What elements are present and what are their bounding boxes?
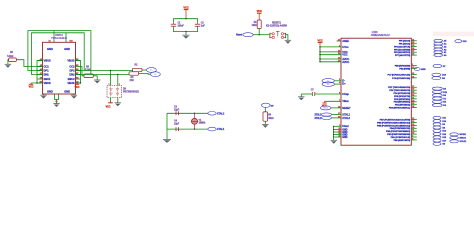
svg-text:PD2 (INT2/RXD1): PD2 (INT2/RXD1)	[394, 102, 411, 104]
svg-text:K2-1187SQ-A4SW: K2-1187SQ-A4SW	[266, 25, 287, 28]
net port D10	[433, 120, 441, 123]
net port D17	[433, 139, 441, 142]
U100 right pin 33 PE2 (HWB)	[411, 67, 417, 69]
svg-text:GND: GND	[47, 90, 53, 94]
U100 right pin 30 PB6 (PCINT6/OC1B/OC4B/ADC13)	[411, 122, 417, 124]
svg-text:D+: D+	[342, 81, 346, 85]
USBC1 left pin A8 SBU1	[38, 78, 43, 80]
ground at R6	[5, 63, 11, 65]
net port A0	[434, 54, 443, 57]
svg-text:PB5 (PCINT5/OC1A/OC4B/ADC12): PB5 (PCINT5/OC1A/OC4B/ADC12)	[377, 124, 410, 127]
svg-text:AVCC: AVCC	[342, 60, 349, 64]
svg-text:VBUS: VBUS	[44, 81, 51, 85]
U100 right pin 8 PB0 (SS/PCINT0)	[411, 139, 417, 141]
U100 right pin 41 PF0 (ADC0)	[411, 40, 417, 42]
svg-text:PB4 (PCINT4/ADC11): PB4 (PCINT4/ADC11)	[390, 127, 411, 130]
wire net D+ (DP2 run)	[76, 70, 133, 72]
junction D+ at ESD	[110, 70, 111, 71]
wire R1 to junction	[258, 29, 260, 35]
svg-text:B12: B12	[70, 41, 73, 43]
svg-text:10kΩ: 10kΩ	[252, 25, 258, 27]
U100 right pin 21 PD3 (INT3/TXD1)	[411, 98, 417, 100]
junction D- at ESD	[117, 74, 118, 75]
net port D3	[432, 104, 442, 107]
ground at reset switch	[285, 39, 291, 41]
USBC1 bottom shield pin left to ground	[43, 94, 45, 95]
IC U100 ATMEGA32U4-AU body	[341, 38, 411, 145]
svg-text:USBC1: USBC1	[55, 34, 63, 37]
net port A1	[434, 51, 443, 54]
net port A3	[434, 45, 443, 48]
svg-text:PB0 (SS/PCINT0): PB0 (SS/PCINT0)	[394, 140, 411, 142]
svg-text:DN2: DN2	[69, 73, 75, 77]
svg-text:XTAL2: XTAL2	[342, 116, 350, 120]
svg-text:PD1 (INT1/SDA): PD1 (INT1/SDA)	[395, 104, 410, 107]
net port A5	[434, 39, 443, 42]
USBC1 right pin B8 SBU2	[76, 78, 81, 80]
power flag VCC left of USBC1	[30, 83, 32, 84]
wire R5 to ground	[93, 76, 97, 80]
svg-text:PE6 (INT6/AIN0): PE6 (INT6/AIN0)	[395, 64, 411, 67]
net port D- to U100	[322, 79, 334, 83]
net port D12	[432, 90, 442, 93]
net port A4	[434, 42, 443, 45]
U100 left pin 43 GND	[334, 136, 342, 138]
svg-text:PD7 (T0/OC4D/ADC10): PD7 (T0/OC4D/ADC10)	[388, 86, 410, 89]
svg-text:VBUS: VBUS	[67, 81, 74, 85]
USBC1 left pin A7 DN1	[38, 74, 43, 76]
wire ESD pin2 up to D-	[117, 75, 119, 86]
net port D14	[433, 129, 441, 132]
svg-text:PD6 (T1/OC4D/ADC9): PD6 (T1/OC4D/ADC9)	[389, 89, 410, 92]
svg-text:DN1: DN1	[44, 73, 50, 77]
svg-text:PF1 (ADC1): PF1 (ADC1)	[399, 43, 411, 46]
svg-text:PD5 (XCK1/CTS): PD5 (XCK1/CTS)	[394, 96, 410, 98]
U100 right pin 28 PB4 (PCINT4/ADC11)	[411, 127, 417, 129]
faint highlight band	[433, 32, 474, 37]
junction VBUS right	[80, 82, 81, 83]
net port HWB	[414, 68, 420, 71]
capacitor C3 22pF	[175, 111, 177, 115]
wire VCC branch	[320, 58, 341, 60]
svg-text:PF4 (ADC4/TCK): PF4 (ADC4/TCK)	[394, 45, 410, 48]
junction top of cap loop	[185, 18, 186, 19]
svg-text:Reset: Reset	[323, 107, 328, 110]
U100 right pin 26 PD6 (T1/OC4D/ADC9)	[411, 89, 417, 91]
USBC1 left pin B4 VBUS	[38, 82, 43, 84]
capacitor C4 22pF	[175, 127, 177, 131]
U100 right pin 32 PC7 (ICP3/CLK0/OC4A)	[411, 74, 417, 76]
wire VCC branch	[320, 46, 341, 48]
wire VBUS bottom left	[37, 82, 43, 84]
svg-text:PRTR5V0U2X: PRTR5V0U2X	[123, 91, 139, 94]
U100 right pin 25 PD4 (ICP1/ADC8)	[411, 92, 417, 94]
wire VCC branch	[320, 54, 341, 56]
U100 right pin 39 PF4 (ADC4/TCK)	[411, 46, 417, 48]
net port D7	[433, 64, 442, 67]
U100 left pin 23 GND	[334, 131, 342, 133]
svg-text:VBUS: VBUS	[67, 59, 74, 63]
wire VCC branch	[320, 61, 341, 63]
USBC1 right pin B7 DN2	[76, 74, 81, 76]
wire loop to ground	[185, 32, 187, 36]
resistor R1 10k pullup	[257, 20, 261, 29]
wire VBUS left rows joined	[31, 61, 43, 84]
USBC1 right pin B6 DP2	[76, 70, 81, 72]
ground below U100	[331, 139, 337, 141]
svg-text:UVcc: UVcc	[342, 45, 349, 49]
svg-text:CC1: CC1	[44, 65, 50, 69]
net port D+	[147, 68, 157, 73]
svg-text:SBU1: SBU1	[44, 77, 51, 81]
wire junction to Reset port	[253, 34, 259, 36]
connector USBC1 body	[43, 42, 76, 94]
ground below caps	[183, 34, 190, 36]
wire switch to ground	[286, 35, 288, 41]
U100 right pin 38 PF5 (ADC5/TMS)	[411, 48, 417, 50]
svg-text:VBus: VBus	[342, 99, 349, 103]
svg-text:PB3 (PDO/PCINT3/MISO): PB3 (PDO/PCINT3/MISO)	[386, 131, 410, 133]
wire C7 to ground	[300, 94, 302, 97]
wire port to R4	[264, 107, 266, 112]
svg-text:GND: GND	[47, 47, 53, 51]
svg-text:5.1kΩ: 5.1kΩ	[7, 56, 13, 58]
wire R6 to ground	[7, 60, 10, 65]
svg-text:10kΩ: 10kΩ	[268, 118, 274, 120]
net port TX	[432, 97, 442, 100]
U100 right pin 31 PC6 (OC3A/OC4A)	[411, 77, 417, 79]
wire R3 to port	[139, 73, 151, 76]
U100 right pin 19 PD1 (INT1/SDA)	[411, 104, 417, 106]
resistor R4 10k	[263, 112, 268, 121]
USBC1 right pin B5 CC2	[76, 66, 81, 68]
U100 left pin 15 GND	[334, 128, 342, 130]
net port XTAL2	[208, 112, 216, 116]
svg-text:SBU2: SBU2	[68, 77, 75, 81]
resistor R6 5.1k CC1 pulldown	[9, 58, 17, 62]
svg-text:PE2 (HWB): PE2 (HWB)	[399, 68, 410, 70]
svg-text:MISO1: MISO1	[460, 138, 467, 140]
svg-text:PC6 (OC3A/OC4A): PC6 (OC3A/OC4A)	[392, 77, 410, 80]
U100 right pin 9 PB1 (PCINT1/SCLK)	[411, 136, 417, 138]
switch actuator	[277, 31, 279, 36]
svg-text:100nF: 100nF	[178, 25, 185, 27]
svg-text:XTAL1: XTAL1	[217, 128, 225, 131]
net port A2	[434, 48, 443, 51]
U100 right pin 29 PB5 (PCINT5/OC1A/OC4B/ADC12)	[411, 124, 417, 126]
net port D13	[432, 73, 441, 76]
wire VBUS bottom right	[76, 82, 81, 84]
svg-text:1uF: 1uF	[201, 25, 206, 27]
wire VCC trunk	[319, 43, 321, 62]
net port D15	[433, 136, 441, 139]
svg-text:XTAL1: XTAL1	[314, 114, 322, 117]
svg-text:PD0 (INT0/OC0B/SCL): PD0 (INT0/OC0B/SCL)	[389, 108, 410, 110]
svg-text:XTAL2: XTAL2	[217, 112, 225, 115]
svg-text:PF7 (ADC7/TDI): PF7 (ADC7/TDI)	[395, 54, 410, 57]
wire R6 to CC1 pin	[16, 60, 42, 67]
wire net D- (DN2 run)	[76, 74, 130, 76]
capacitor C7 on UCap	[301, 93, 312, 95]
svg-text:UCap: UCap	[342, 92, 349, 96]
svg-text:1: 1	[109, 84, 110, 86]
USBC1 left pin A6 DP1	[38, 70, 43, 72]
svg-text:PF6 (ADC6/TDO): PF6 (ADC6/TDO)	[394, 51, 410, 54]
svg-text:HWB: HWB	[421, 69, 426, 71]
wire decoupling loop	[174, 19, 198, 23]
svg-text:VCC: VCC	[342, 53, 347, 57]
wire VBUS right rows joined	[76, 61, 81, 84]
svg-text:VCC: VCC	[106, 106, 111, 109]
wire ESD to VCC	[110, 98, 112, 103]
svg-text:TYPE-C-31-M-12: TYPE-C-31-M-12	[51, 38, 68, 40]
ground below R4	[262, 123, 268, 125]
wire R4 to ground	[264, 121, 266, 124]
svg-text:RESET: RESET	[342, 106, 351, 110]
U100 right pin 1 PE6 (INT6/AIN0)	[411, 65, 417, 67]
svg-text:MOSI1: MOSI1	[460, 134, 467, 136]
svg-text:16MHz: 16MHz	[199, 123, 207, 125]
USBC1 left pin A5 CC1	[38, 66, 43, 68]
ground below ESD	[115, 102, 121, 104]
svg-text:CC2: CC2	[69, 65, 75, 69]
svg-text:PF0 (ADC0): PF0 (ADC0)	[399, 40, 411, 43]
svg-text:22Ω: 22Ω	[130, 80, 134, 82]
svg-text:SCLK1: SCLK1	[460, 141, 468, 143]
USBC1 right pin B9 VBUS	[76, 60, 81, 62]
ground at R5	[94, 79, 100, 81]
svg-text:PB6 (PCINT6/OC1B/OC4B/ADC13): PB6 (PCINT6/OC1B/OC4B/ADC13)	[377, 121, 410, 124]
power flag VCC right of USBC1	[76, 83, 78, 84]
U100 right pin 10 PB2 (PDI/PCINT2/MOSI)	[411, 133, 417, 135]
svg-text:GND: GND	[342, 136, 347, 139]
svg-text:XTAL1: XTAL1	[342, 112, 350, 116]
wire ESD pin1 up to D+	[110, 71, 112, 86]
svg-text:A1: A1	[55, 100, 57, 103]
U100 left pin 42 AREF	[337, 40, 342, 42]
power flag VCC below ESD	[108, 102, 113, 104]
USBC1 bottom center pins to ground	[55, 94, 59, 100]
svg-text:43: 43	[338, 135, 340, 138]
wire GND trunk	[333, 126, 335, 140]
ground at C7	[298, 96, 304, 98]
svg-text:22pF: 22pF	[174, 123, 180, 125]
U100 left pin 3 UGnd	[334, 125, 342, 127]
svg-text:VCC: VCC	[257, 9, 262, 13]
svg-text:DP1: DP1	[44, 69, 50, 73]
net port D-	[151, 72, 161, 77]
U100 right pin 12 PB7 (PCINT7/OC0A/OC1C/RTS)	[411, 119, 417, 121]
junction reset node	[259, 34, 260, 35]
USBC1 left pin A4 VBUS	[38, 60, 43, 62]
junction VBUS left	[36, 82, 37, 83]
net port MOSI1	[450, 133, 459, 136]
wire ESD to ground	[117, 98, 119, 103]
U100 right pin 11 PB3 (PDO/PCINT3/MISO)	[411, 130, 417, 132]
svg-text:D+: D+	[327, 84, 329, 86]
junction bottom of cap loop	[185, 31, 186, 32]
svg-text:AREF: AREF	[342, 39, 349, 43]
svg-text:Reset: Reset	[236, 34, 242, 37]
resistor R3 22ohm on D-	[129, 72, 139, 75]
ESD diode D9 PRTR5V0U2X	[107, 86, 122, 98]
U100 right pin 36 PF7 (ADC7/TDI)	[411, 54, 417, 56]
wire: shield loop outer (DP1 to DP2 over top)	[28, 31, 91, 75]
net port D4	[432, 94, 442, 97]
wire: shield loop inner (DN1 to DN2 over top)	[32, 33, 85, 75]
svg-text:VBUS: VBUS	[44, 59, 51, 63]
U100 right pin 18 PD0 (INT0/OC0B/SCL)	[411, 107, 417, 109]
net port D+ to U100	[322, 82, 334, 86]
net port SCLK1	[450, 140, 459, 143]
wire XTAL2 row	[167, 112, 208, 114]
svg-text:VCC: VCC	[75, 86, 80, 89]
svg-text:PD3 (INT3/TXD1): PD3 (INT3/TXD1)	[394, 99, 410, 101]
net port MISO1	[450, 136, 459, 139]
svg-text:PB7 (PCINT7/OC0A/OC1C/RTS): PB7 (PCINT7/OC0A/OC1C/RTS)	[380, 119, 411, 122]
capacitor C2	[195, 23, 200, 25]
resistor R2 22ohm on D+	[133, 68, 143, 71]
resistor R5 5.1k CC2 pulldown	[84, 74, 93, 78]
U100 right pin 40 PF1 (ADC1)	[411, 43, 417, 45]
wire left vertical to ground	[166, 113, 168, 139]
net port Reset to U100	[320, 106, 331, 110]
svg-text:3: 3	[339, 125, 340, 127]
net port D9	[433, 123, 441, 126]
U100 right pin 20 PD2 (INT2/RXD1)	[411, 101, 417, 103]
U100 right pin 27 PD7 (T0/OC4D/ADC10)	[411, 86, 417, 88]
net port D5	[432, 77, 441, 80]
wire: USB shield pin A up to loop	[53, 31, 55, 43]
wire VCC branch	[320, 51, 341, 53]
wire: USB shield pin B up to loop	[65, 33, 67, 43]
net port RX	[432, 100, 442, 103]
svg-text:22pF: 22pF	[174, 109, 180, 111]
USBC1 bottom shield pin right to ground	[73, 94, 75, 95]
net port D16	[433, 133, 441, 136]
junction crystal top	[194, 113, 195, 114]
wire R2 to port	[142, 69, 147, 71]
svg-text:GND: GND	[64, 47, 70, 51]
svg-text:PF5 (ADC5/TMS): PF5 (ADC5/TMS)	[394, 48, 410, 51]
net port D8	[433, 126, 441, 129]
junction crystal bottom	[194, 128, 195, 129]
svg-text:ATMEGA32U4-AU: ATMEGA32U4-AU	[371, 34, 390, 37]
svg-text:GND: GND	[64, 90, 70, 94]
svg-text:PC7 (ICP3/CLK0/OC4A): PC7 (ICP3/CLK0/OC4A)	[388, 74, 411, 77]
svg-text:DP2: DP2	[70, 69, 76, 73]
svg-text:XTAL2: XTAL2	[314, 117, 322, 120]
svg-text:VCC: VCC	[317, 38, 322, 42]
svg-text:VCC: VCC	[29, 86, 34, 89]
svg-text:VCC: VCC	[183, 5, 188, 9]
U100 right pin 37 PF6 (ADC6/TDO)	[411, 51, 417, 53]
wire XTAL1 row	[167, 128, 208, 130]
capacitor C1	[171, 23, 176, 25]
net port XTAL1	[208, 127, 216, 131]
ground crystal block	[163, 138, 171, 140]
svg-text:PB2 (PDI/PCINT2/MOSI): PB2 (PDI/PCINT2/MOSI)	[387, 134, 410, 136]
svg-text:A1: A1	[48, 40, 50, 43]
crystal Y1 16MHz	[194, 113, 196, 118]
wire CC2 to R5	[81, 67, 85, 76]
net port D6	[432, 87, 442, 90]
svg-text:PD4 (ICP1/ADC8): PD4 (ICP1/ADC8)	[394, 92, 411, 95]
USBC1 right pin A9 VBUS	[76, 82, 81, 84]
svg-text:2: 2	[119, 84, 120, 86]
U100 left pin 35 GND	[334, 134, 342, 136]
U100 right pin 22 PD5 (XCK1/CTS)	[411, 95, 417, 97]
power flag VCC at VBus	[325, 100, 341, 102]
net port D18	[455, 40, 462, 43]
net port D5 at R4	[261, 103, 270, 107]
svg-text:PB1 (PCINT1/SCLK): PB1 (PCINT1/SCLK)	[391, 137, 411, 139]
net port D11	[433, 116, 441, 119]
wire junction to switch	[259, 34, 269, 36]
net port SS	[433, 142, 441, 145]
